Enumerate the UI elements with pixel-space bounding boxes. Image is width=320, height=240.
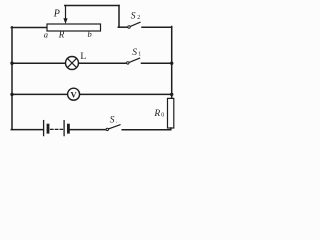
wire from S to R0 — [122, 129, 171, 131]
svg-text:0: 0 — [161, 112, 164, 118]
svg-text:R: R — [58, 29, 65, 39]
wire top from left rail to rheostat — [11, 27, 47, 29]
battery cell 2 long plate — [63, 121, 65, 136]
node junction left rail voltmeter line — [10, 93, 13, 96]
battery cell 2 short plate — [67, 125, 70, 132]
node switch S1 pivot — [127, 62, 129, 64]
svg-text:S: S — [131, 11, 136, 21]
resistor R0 body — [168, 98, 174, 128]
wire lamp line from left rail — [11, 62, 65, 64]
battery cell 1 long plate — [43, 121, 45, 136]
wire wiper stem P — [65, 6, 67, 19]
svg-text:V: V — [71, 89, 78, 99]
node switch S2 pivot — [128, 26, 130, 28]
wire from S1 to right rail — [142, 62, 172, 64]
svg-text:b: b — [88, 29, 92, 39]
wire stub under R0 — [170, 128, 172, 130]
wire to switch S2 — [118, 26, 128, 28]
wire down to S2 line — [118, 6, 120, 28]
svg-text:R: R — [153, 109, 160, 119]
voltmeter V body — [68, 88, 80, 100]
svg-text:S: S — [132, 48, 137, 58]
svg-text:1: 1 — [138, 51, 141, 57]
switch S1 blade — [129, 58, 140, 62]
switch S2 blade — [130, 22, 140, 26]
node junction right rail S1 line — [170, 62, 173, 65]
lamp L body — [66, 57, 79, 70]
svg-text:.: . — [116, 118, 118, 124]
wire voltmeter line from left rail — [11, 93, 67, 95]
switch S blade — [108, 125, 120, 129]
battery cell 1 short plate — [47, 125, 50, 132]
battery dashed middle — [51, 128, 63, 130]
wire from S2 to right rail — [142, 26, 172, 28]
resistor R rheostat body — [47, 24, 101, 31]
node junction right rail voltmeter line — [170, 93, 173, 96]
wire from battery to switch S — [70, 129, 106, 131]
wire left rail — [11, 27, 13, 130]
svg-text:S: S — [110, 115, 115, 125]
svg-text:a: a — [44, 30, 48, 40]
node junction left rail lamp line — [10, 62, 13, 65]
svg-text:2: 2 — [137, 15, 140, 21]
svg-text:P: P — [53, 9, 60, 20]
wire from lamp to S1 — [79, 62, 127, 64]
wire bottom from left rail to battery — [11, 129, 43, 131]
wire from voltmeter to right rail — [80, 93, 172, 95]
node switch S pivot — [106, 128, 108, 130]
wire wiper top horizontal — [65, 5, 119, 7]
wire right rail — [171, 27, 173, 99]
svg-text:L: L — [80, 52, 86, 62]
wiper arrowhead — [63, 18, 67, 24]
